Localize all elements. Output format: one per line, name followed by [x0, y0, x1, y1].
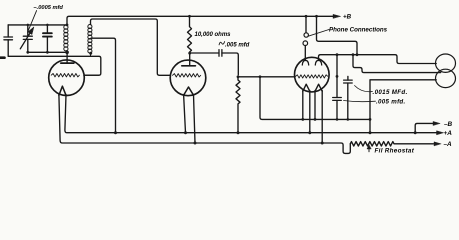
node fil V3 leg3 bus — [314, 118, 317, 121]
node plate V2 — [188, 52, 191, 55]
resistor filament rheostat — [350, 142, 433, 146]
svg-text:10,000 ohms: 10,000 ohms — [195, 32, 232, 38]
grid zigzag tube V1 — [51, 74, 79, 77]
arrow +B terminal — [333, 14, 341, 18]
wire tank top — [8, 24, 67, 26]
wire filament leg 4 V3 to lower rail — [321, 91, 323, 144]
node bus cap 0015 — [347, 118, 350, 121]
terminal circle phone connection upper — [304, 33, 308, 37]
wire filament leg right V1 to upper rail — [65, 95, 437, 133]
arrow rheostat wiper — [367, 145, 371, 152]
node grid V3 bypass — [336, 75, 339, 78]
node tank top coil — [66, 24, 69, 27]
wire tank bottom — [28, 51, 67, 53]
svg-text:.005 mfd.: .005 mfd. — [376, 99, 406, 106]
wire filament leg 1 V3 to bus — [302, 91, 304, 120]
label .005 mfd squiggle — [219, 41, 225, 45]
wire L2 top to tube V2 grid — [91, 19, 171, 75]
leader line .005 label — [344, 101, 376, 102]
node tank bottom fixed cap — [46, 51, 49, 54]
inductor L1 secondary coil — [64, 25, 68, 52]
wire grid line to tube V3 — [238, 76, 295, 78]
node fil V2 right rail — [194, 142, 197, 145]
wire coil tap to upper rail — [91, 38, 116, 133]
node fil V3 leg4 rail — [321, 142, 324, 145]
plate hook left tube V3 — [302, 60, 308, 65]
node grid leak bottom rail — [237, 131, 240, 134]
wire phones middle lead — [353, 55, 441, 73]
leader line label .0005 mfd — [28, 11, 37, 33]
resistor grid leak — [236, 77, 240, 133]
plate bar tube V1 — [61, 62, 74, 64]
node resistor top B+ — [188, 15, 191, 18]
grid zigzag tube V2 — [173, 74, 201, 77]
svg-text:–.0005 mfd: –.0005 mfd — [34, 5, 64, 11]
headphone earpiece lower — [436, 69, 456, 87]
grid zigzag tube V3 — [296, 75, 328, 78]
triode V1 envelope — [49, 60, 85, 96]
wire plate coupling line V2 — [190, 52, 219, 54]
node coupling to grid V3 — [259, 75, 262, 78]
wire plate lead tube V2 — [189, 53, 191, 66]
node grid leak top — [237, 75, 240, 78]
wire filament leg 3 V3 to bus — [314, 91, 316, 120]
node tank bottom var cap — [26, 51, 29, 54]
svg-text:Phone Connections: Phone Connections — [329, 27, 388, 34]
node bus cap 005 — [336, 118, 339, 121]
filament V right tube V3 — [315, 84, 322, 91]
node phones return rail — [369, 131, 372, 134]
filament V tube V2 — [184, 87, 194, 95]
plate hook right tube V3 — [315, 60, 321, 65]
wire filament leg 2 V3 to upper rail — [309, 91, 311, 133]
antenna terminal mark left edge — [0, 56, 5, 59]
wire filament leg left V1 to lower rail — [59, 95, 350, 154]
wire phone jack to plate V3 — [304, 46, 306, 61]
node phones line middle tap — [352, 53, 355, 56]
wire grid hookup tube V1 — [84, 74, 99, 76]
svg-text:.0015 MFd.: .0015 MFd. — [373, 89, 408, 96]
node fil V3 leg1 bus — [301, 118, 304, 121]
svg-text:+A: +A — [444, 130, 453, 137]
inductor L2 tickler coil — [88, 25, 92, 57]
svg-text:Fil Rheostat: Fil Rheostat — [375, 148, 415, 155]
plate bar tube V2 — [182, 65, 196, 67]
node tank top var cap — [27, 24, 30, 27]
wire phones lower lead to upper rail — [370, 80, 436, 133]
capacitor .0015 mfd grid bypass — [344, 76, 353, 119]
wire filament leg left V2 — [184, 95, 186, 133]
node -B branch rail — [414, 131, 417, 134]
wire -B branch — [415, 123, 433, 132]
wire plate V3 to phones line — [319, 55, 437, 64]
resistor 10,000 ohms plate load — [188, 16, 192, 53]
wire filament leg right V2 — [194, 95, 196, 144]
arrow -A terminal — [434, 142, 441, 146]
capacitor .005 mfd coupling — [219, 50, 222, 57]
node B+ phones feed — [315, 15, 318, 18]
node fil V3 leg2 rail — [308, 131, 311, 134]
capacitor fixed grid condenser — [43, 25, 52, 52]
wire B+ rail to phones top lead — [317, 16, 358, 54]
arrow +A terminal — [437, 131, 444, 135]
node fil V2 left rail — [184, 131, 187, 134]
arrow -B terminal — [433, 121, 440, 125]
capacitor .005 mfd phone bypass — [333, 55, 342, 120]
wire phone jack from B+ rail — [305, 16, 307, 33]
capacitor variable tuning C1 — [20, 25, 34, 52]
node phones line cap — [336, 53, 339, 56]
node tap on upper rail — [114, 131, 117, 134]
svg-text:.005 mfd: .005 mfd — [225, 43, 250, 49]
triode V2 envelope — [170, 60, 206, 96]
leader line phone connections label — [308, 30, 329, 37]
wire grid node down to return bus — [260, 77, 370, 120]
wire coupling cap to grid node — [222, 53, 238, 75]
node B+ phone jack — [305, 15, 308, 18]
node tank bottom coil plate — [65, 51, 69, 55]
filament V tube V1 — [59, 86, 66, 95]
wire filament return lower — [8, 56, 101, 75]
node phones line feed — [356, 53, 359, 56]
headphone earpiece upper — [436, 54, 456, 72]
terminal circle phone connection lower — [303, 41, 308, 46]
node bus phones return — [369, 118, 372, 121]
leader line .0015 label — [355, 86, 373, 92]
svg-text:+B: +B — [343, 14, 352, 21]
wire B+ rail top — [67, 16, 333, 25]
wire plate lead tube V1 — [66, 52, 68, 63]
svg-text:–B: –B — [444, 121, 453, 128]
svg-text:–A: –A — [444, 141, 453, 148]
node tank top fixed cap — [46, 24, 49, 27]
node tickler bottom — [89, 52, 92, 55]
triode V3 envelope — [295, 57, 330, 92]
capacitor antenna series — [4, 25, 13, 56]
filament V left tube V3 — [303, 84, 310, 91]
